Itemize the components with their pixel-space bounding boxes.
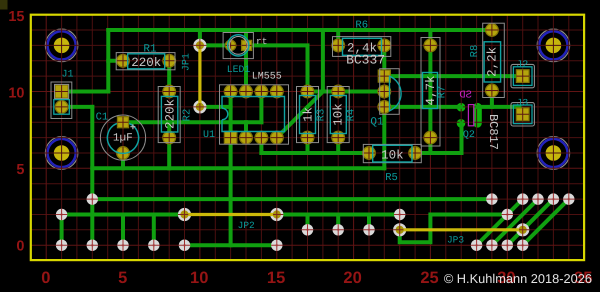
- capacitor C1 plus mark: [130, 124, 135, 129]
- svg-text:JP2: JP2: [238, 220, 255, 231]
- connector J1 pin2 silk box: [54, 100, 70, 115]
- resistor R2 courtyard: [158, 87, 180, 143]
- jumper JP1 wire: [198, 51, 201, 102]
- connector J1 pad 2: [55, 101, 68, 114]
- IC U1 body with notch: [222, 97, 285, 132]
- svg-text:Q1: Q1: [370, 117, 384, 129]
- resistor R1 courtyard: [116, 53, 175, 70]
- svg-text:5: 5: [16, 162, 24, 178]
- wire R4 bottom stub: [336, 138, 340, 153]
- svg-text:rt: rt: [256, 36, 267, 47]
- mounting hole H4 bottom-right: [537, 137, 570, 170]
- resistor R8 pads: [486, 24, 499, 37]
- jumper JP3 wire: [405, 228, 517, 231]
- wire J1 pad1 to riser: [62, 90, 109, 94]
- svg-text:0: 0: [16, 238, 24, 254]
- svg-text:25: 25: [420, 269, 438, 287]
- transistor Q1 courtyard: [380, 69, 400, 115]
- connector J3 silk box: [513, 105, 532, 124]
- wire R6 right to Q1 pad1: [382, 45, 386, 76]
- transistor Q2 pad 1 (back Cu): [457, 103, 466, 112]
- wire Q1 pad3 to Q2 pad1: [384, 105, 461, 109]
- svg-text:2,2k: 2,2k: [486, 47, 500, 77]
- wire R5 right to Q2 pad2: [415, 123, 461, 153]
- pad P15 (unconnected): [117, 240, 128, 251]
- pad P11 (unconnected): [333, 224, 344, 235]
- connector J3 pad (square): [516, 108, 529, 121]
- mounting hole H3 bottom-left: [45, 137, 78, 170]
- grid major: [31, 15, 584, 260]
- wire U1 pin8-pin1 column: [229, 92, 233, 138]
- wire row P bus: [185, 243, 277, 247]
- svg-text:1k: 1k: [302, 107, 316, 122]
- jumper JP2 pad B: [270, 208, 283, 221]
- wire R8 bottom stub to J3 net: [490, 91, 494, 107]
- svg-text:10: 10: [8, 86, 24, 102]
- IC U1 pins 2-4: [240, 131, 253, 144]
- pad P19 (unconnected): [471, 240, 482, 251]
- svg-text:R8: R8: [469, 45, 481, 58]
- wire JP3 S-bend to pad: [400, 215, 508, 243]
- wire VCC drop through R7: [428, 30, 432, 153]
- svg-text:5: 5: [118, 269, 127, 287]
- svg-text:10k: 10k: [331, 103, 345, 126]
- wire LED trace JP1 to LED1 A: [200, 43, 231, 47]
- resistor R1 body: [128, 54, 165, 69]
- mounting hole H1 top-left: [45, 29, 78, 62]
- pad P8 (unconnected): [394, 209, 405, 220]
- wire VCC drop to JP1 pad A: [198, 30, 202, 45]
- resistor R7 pads: [424, 39, 437, 52]
- wire R2 bottom stub up: [167, 122, 171, 137]
- svg-text:220k: 220k: [164, 99, 178, 129]
- svg-text:R4: R4: [346, 109, 358, 122]
- grid minor: [31, 15, 584, 261]
- LED1 silk circle: [228, 35, 249, 56]
- wire row C stub u19: [336, 215, 340, 230]
- wire col u7 down: [152, 215, 156, 246]
- svg-text:BC817: BC817: [486, 114, 500, 150]
- pad P16 (unconnected): [148, 240, 159, 251]
- svg-text:LM555: LM555: [252, 72, 282, 83]
- jumper JP1 pad A: [193, 39, 206, 52]
- wire row N bus: [92, 197, 492, 201]
- pad P9 (unconnected): [502, 209, 513, 220]
- pad P1 (unconnected): [87, 193, 98, 204]
- resistor R5 courtyard: [363, 144, 421, 162]
- resistor R6 body: [343, 38, 382, 55]
- pad P12 (unconnected): [363, 224, 374, 235]
- pad P7 (unconnected): [56, 209, 67, 220]
- wire col u5 down: [121, 215, 125, 246]
- wire column x=92 down to row P: [90, 107, 94, 245]
- wire left riser x=108: [106, 30, 110, 92]
- capacitor C1 pad -: [117, 147, 130, 160]
- pad P10 (unconnected): [302, 224, 313, 235]
- pad P14 (unconnected): [87, 240, 98, 251]
- LED1 pad K (square): [242, 40, 252, 50]
- wire diagonal D3: [507, 199, 553, 245]
- transistor Q1 body (TO-92): [390, 76, 402, 111]
- LED1 fab circle: [229, 37, 247, 55]
- wire Q1 pad3 to H1: [382, 107, 386, 168]
- wire row C stub u17: [306, 215, 310, 230]
- resistor R7 body: [423, 73, 438, 109]
- wire diagonal riser to VCC: [321, 30, 325, 92]
- svg-text:R2: R2: [182, 109, 194, 122]
- jumper JP3 pad A: [393, 223, 406, 236]
- transistor Q2 pad 2 (back Cu): [457, 119, 466, 128]
- connector J2 pad (square): [516, 70, 529, 83]
- IC U1 courtyard: [220, 85, 289, 144]
- resistor R8 courtyard: [483, 23, 505, 97]
- svg-text:10k: 10k: [381, 148, 404, 162]
- wire diagonal D1: [477, 199, 523, 245]
- resistor R2 pads: [163, 85, 176, 98]
- pad P3 (unconnected): [517, 193, 528, 204]
- jumper JP1 pad B: [193, 100, 206, 113]
- wire VCC drop to U1 pin7: [244, 30, 248, 92]
- LED1 pad A: [225, 40, 235, 50]
- transistor Q1 pad 1 (square): [378, 70, 390, 82]
- capacitor C1 courtyard circle: [100, 115, 145, 160]
- svg-text:15: 15: [8, 9, 24, 25]
- LED1 courtyard: [223, 33, 253, 59]
- svg-text:LED1: LED1: [227, 64, 251, 75]
- svg-text:C1: C1: [96, 112, 109, 124]
- resistor R8 body: [484, 42, 501, 82]
- pad P2 (unconnected): [486, 193, 497, 204]
- svg-text:10: 10: [190, 269, 208, 287]
- svg-text:0: 0: [41, 269, 50, 287]
- svg-text:220k: 220k: [131, 56, 161, 70]
- resistor R7 courtyard: [421, 38, 440, 147]
- wire U1 pin3 drop: [259, 138, 263, 153]
- connector J1 courtyard: [51, 82, 72, 119]
- svg-text:R7: R7: [437, 86, 449, 99]
- wire VCC drop to R6 left: [336, 30, 340, 45]
- wire row O bus right: [277, 213, 400, 217]
- svg-text:R6: R6: [355, 19, 368, 31]
- svg-text:BC337: BC337: [346, 53, 385, 68]
- wire JP1 pad B to U1 pin8 col: [200, 105, 231, 109]
- resistor R4 pads: [332, 85, 345, 98]
- svg-text:JP1: JP1: [182, 53, 193, 71]
- IC U1 pins 5-8: [271, 85, 284, 98]
- svg-text:U1: U1: [203, 130, 215, 141]
- pad P20 (unconnected): [486, 240, 497, 251]
- capacitor C1 pad + (square): [118, 117, 129, 128]
- resistor R1 pads: [117, 55, 130, 68]
- resistor R3 body: [300, 96, 316, 134]
- wire diagonal D4: [523, 199, 569, 245]
- transistor Q1 pads 2,3: [378, 85, 391, 98]
- wire Q2 pad3 to J3: [478, 105, 520, 109]
- jumper JP3 pad B: [516, 223, 529, 236]
- wire row C stub u21: [367, 215, 371, 230]
- connector J2 silk box: [513, 67, 532, 86]
- svg-text:J3: J3: [516, 99, 528, 110]
- wire col u1 down: [60, 215, 64, 246]
- wire GND bus H1: [92, 166, 384, 170]
- resistor R6 courtyard: [333, 37, 391, 57]
- transistor Q2 body (back silk): [468, 105, 473, 126]
- resistor R6 pads: [332, 39, 345, 52]
- svg-text:SD: SD: [459, 89, 472, 101]
- wire U1 pin2 stub: [244, 122, 248, 137]
- pad P4 (unconnected): [532, 193, 543, 204]
- wire diagonal D2: [492, 199, 538, 245]
- wire Q1 pad1 to J2: [384, 74, 522, 78]
- board outline (Edge.Cuts): [31, 15, 584, 260]
- wire C1 - to H1: [121, 153, 125, 168]
- pad P18 (unconnected): [271, 240, 282, 251]
- pad P21 (unconnected): [502, 240, 513, 251]
- pad P17 (unconnected): [179, 240, 190, 251]
- wire R1 right to R2 top: [167, 61, 171, 92]
- connector J1 pad 1 (square): [55, 85, 68, 98]
- resistor R3 courtyard: [297, 87, 319, 143]
- resistor R3 pads: [301, 85, 314, 98]
- IC U1 pin1 (square): [224, 131, 236, 143]
- connector J3 courtyard: [511, 103, 534, 126]
- wire U1 pin6 drop: [259, 92, 263, 123]
- svg-text:R5: R5: [385, 172, 398, 184]
- svg-text:1µF: 1µF: [113, 133, 133, 145]
- wire R2 bottom to H1: [167, 138, 171, 169]
- svg-text:20: 20: [343, 269, 361, 287]
- svg-text:J1: J1: [61, 70, 73, 81]
- wire C1 + to U1 inner bus: [123, 120, 261, 124]
- resistor R5 pads: [363, 147, 376, 160]
- jumper JP2 pad A: [178, 208, 191, 221]
- wire U1 pin4 diagonal: [277, 92, 323, 138]
- svg-text:J2: J2: [516, 60, 528, 71]
- resistor R4 courtyard: [327, 87, 349, 143]
- wire LED1 K to R3 corner: [246, 45, 308, 91]
- wire R3 bottom stub: [306, 138, 310, 153]
- svg-text:Q2: Q2: [463, 130, 475, 141]
- wire net VCC top bus: [108, 28, 492, 32]
- wire out bus to R5 left: [261, 151, 369, 155]
- wire riser to R1 left: [108, 59, 123, 63]
- corner artifact: [0, 0, 8, 10]
- resistor R5 body: [373, 145, 412, 162]
- wire J1 pad2 right: [62, 105, 93, 109]
- capacitor C1 silk arcs: [107, 123, 138, 153]
- wire row O bus left: [62, 213, 185, 217]
- connector J1 pin1 silk box: [55, 84, 69, 98]
- resistor R2 body: [161, 96, 177, 132]
- svg-text:JP3: JP3: [447, 235, 464, 246]
- resistor R4 body: [330, 96, 346, 134]
- pad P22 (unconnected): [517, 240, 528, 251]
- wire base bus R3-R4-Q1 pad2: [308, 90, 385, 94]
- mounting hole H2 top-right: [537, 29, 570, 62]
- transistor Q2 pad 3 (back Cu): [473, 107, 482, 123]
- svg-text:4,7k: 4,7k: [424, 75, 438, 105]
- svg-text:© H.Kuhlmann 2018-2026: © H.Kuhlmann 2018-2026: [444, 271, 592, 286]
- svg-text:R3: R3: [316, 109, 328, 122]
- connector J2 courtyard: [511, 64, 534, 87]
- svg-text:15: 15: [267, 269, 285, 287]
- pad P5 (unconnected): [548, 193, 559, 204]
- jumper JP2 wire: [190, 213, 272, 216]
- svg-text:R1: R1: [143, 44, 157, 56]
- pad P13 (unconnected): [56, 240, 67, 251]
- pad P6 (unconnected): [563, 193, 574, 204]
- wire U1 pin1 column down: [229, 138, 233, 246]
